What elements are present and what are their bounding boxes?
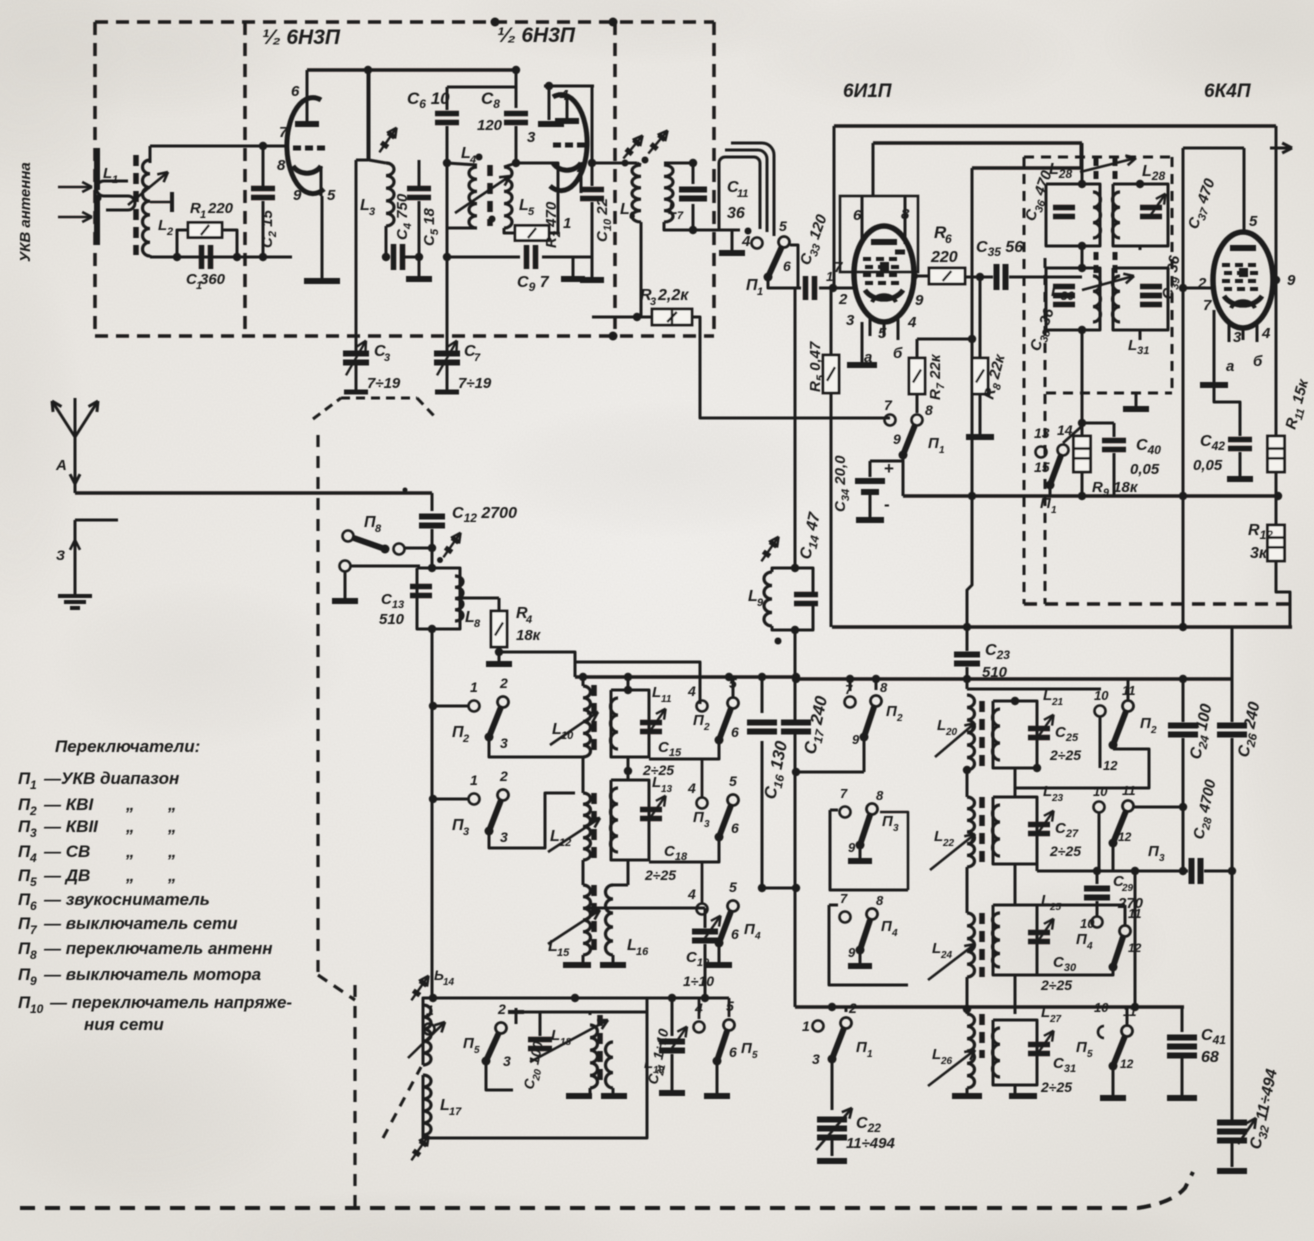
svg-text:З: З [56, 547, 65, 563]
svg-text:2: 2 [703, 722, 710, 733]
svg-text:„: „ [167, 795, 177, 814]
svg-text:20: 20 [945, 727, 958, 738]
svg-text:L: L [1043, 783, 1052, 800]
svg-text:— выключатель сети: — выключатель сети [43, 914, 238, 933]
svg-text:L: L [103, 165, 112, 182]
svg-text:18к: 18к [516, 627, 542, 644]
svg-text:5: 5 [779, 218, 787, 234]
svg-text:— КВІІ: — КВІІ [43, 817, 99, 836]
svg-text:2÷25: 2÷25 [1049, 747, 1081, 763]
svg-text:3: 3 [369, 206, 375, 218]
svg-text:5: 5 [30, 875, 37, 889]
svg-text:13: 13 [661, 784, 673, 795]
svg-text:5: 5 [729, 773, 737, 789]
svg-text:5: 5 [1087, 1049, 1093, 1060]
svg-text:6: 6 [731, 724, 739, 740]
svg-text:2: 2 [1150, 725, 1157, 736]
svg-text:5: 5 [729, 879, 737, 895]
svg-text:14: 14 [443, 977, 455, 988]
svg-text:6К4П: 6К4П [1204, 81, 1251, 102]
svg-text:5: 5 [729, 675, 737, 691]
svg-text:4: 4 [891, 928, 898, 939]
svg-text:L: L [652, 774, 661, 791]
svg-text:6И1П: 6И1П [843, 81, 892, 102]
svg-text:2,2к: 2,2к [657, 287, 689, 304]
svg-text:7: 7 [840, 786, 848, 801]
svg-text:4: 4 [1261, 325, 1271, 342]
svg-text:¹⁄₂ 6Н3П: ¹⁄₂ 6Н3П [497, 24, 576, 47]
svg-text:2: 2 [896, 713, 903, 724]
svg-text:2÷25: 2÷25 [1049, 843, 1081, 859]
svg-text:1: 1 [200, 209, 206, 221]
svg-text:29: 29 [1121, 883, 1134, 894]
svg-text:220: 220 [930, 249, 958, 266]
svg-text:5: 5 [726, 998, 734, 1014]
svg-text:2: 2 [29, 804, 37, 818]
svg-text:9: 9 [893, 431, 901, 447]
svg-text:3: 3 [1233, 329, 1242, 346]
svg-text:4: 4 [687, 886, 696, 902]
svg-text:4: 4 [525, 614, 532, 626]
svg-text:¹⁄₂ 6Н3П: ¹⁄₂ 6Н3П [262, 26, 341, 49]
svg-text:2: 2 [462, 733, 469, 745]
svg-text:L: L [652, 684, 661, 701]
svg-text:C6 10: C6 10 [407, 89, 450, 111]
svg-text:— переключатель антенн: — переключатель антенн [43, 939, 273, 958]
svg-text:1: 1 [112, 174, 118, 186]
svg-text:1: 1 [1051, 505, 1057, 516]
svg-text:4: 4 [1086, 941, 1093, 952]
svg-text:15: 15 [1034, 459, 1050, 475]
svg-text:11: 11 [661, 694, 672, 705]
svg-text:3: 3 [650, 296, 656, 308]
svg-text:L: L [934, 828, 943, 845]
svg-text:6: 6 [731, 926, 739, 942]
svg-text:16: 16 [636, 946, 649, 958]
svg-text:8: 8 [925, 402, 933, 418]
svg-text:9: 9 [915, 292, 924, 309]
svg-text:6: 6 [30, 899, 37, 913]
svg-text:22: 22 [942, 838, 955, 849]
svg-text:„: „ [167, 842, 177, 861]
svg-text:0,05: 0,05 [1193, 457, 1223, 474]
svg-text:2: 2 [838, 291, 848, 308]
svg-text:1: 1 [802, 1018, 810, 1034]
svg-text:5: 5 [327, 187, 336, 204]
svg-text:2÷25: 2÷25 [644, 867, 676, 883]
svg-text:12: 12 [1118, 830, 1132, 844]
svg-text:23: 23 [1051, 793, 1064, 804]
svg-text:5: 5 [1249, 213, 1258, 230]
svg-text:17: 17 [449, 1106, 462, 1118]
svg-text:6: 6 [945, 232, 952, 246]
svg-text:27: 27 [1049, 1014, 1062, 1025]
svg-text:9: 9 [293, 187, 302, 204]
svg-text:12: 12 [1120, 1057, 1134, 1071]
svg-text:0,05: 0,05 [1130, 461, 1160, 478]
svg-text:10: 10 [1094, 688, 1109, 703]
svg-text:4: 4 [687, 683, 696, 699]
svg-text:-: - [884, 495, 890, 514]
svg-text:15: 15 [557, 947, 570, 959]
svg-text:4: 4 [469, 154, 476, 166]
svg-text:„: „ [167, 817, 177, 836]
svg-text:1: 1 [470, 772, 478, 788]
svg-text:6: 6 [729, 1044, 737, 1060]
svg-text:ния сети: ния сети [84, 1015, 164, 1034]
svg-text:„: „ [125, 842, 135, 861]
svg-text:L: L [158, 217, 167, 234]
svg-text:4: 4 [694, 1000, 703, 1016]
svg-text:8: 8 [30, 948, 37, 962]
svg-text:2: 2 [576, 159, 586, 176]
svg-text:1: 1 [826, 269, 833, 284]
svg-text:9: 9 [30, 974, 37, 988]
svg-text:4: 4 [559, 87, 569, 104]
svg-text:L: L [932, 940, 941, 957]
svg-text:7: 7 [840, 891, 848, 906]
svg-text:120: 120 [477, 117, 503, 134]
svg-text:5: 5 [752, 1050, 758, 1061]
svg-text:3к: 3к [1250, 545, 1268, 562]
svg-text:360: 360 [200, 271, 226, 288]
svg-text:36: 36 [727, 205, 745, 222]
svg-text:6: 6 [783, 258, 791, 274]
svg-text:1: 1 [867, 1049, 873, 1060]
svg-text:+: + [884, 459, 894, 478]
svg-text:7: 7 [474, 352, 481, 364]
svg-text:7: 7 [1203, 297, 1212, 314]
svg-text:6: 6 [629, 210, 636, 222]
svg-text:11: 11 [1122, 783, 1136, 798]
svg-text:9: 9 [848, 945, 856, 960]
svg-text:3: 3 [1159, 853, 1165, 864]
svg-text:—УКВ диапазон: —УКВ диапазон [43, 769, 179, 788]
svg-text:— переключатель напряже-: — переключатель напряже- [49, 993, 292, 1012]
svg-text:— КВІ: — КВІ [43, 795, 94, 814]
svg-text:24: 24 [940, 950, 953, 961]
svg-text:а: а [1226, 358, 1234, 375]
svg-text:„: „ [125, 817, 135, 836]
svg-text:9: 9 [848, 840, 856, 855]
svg-text:б: б [1253, 353, 1263, 370]
svg-text:7: 7 [845, 682, 853, 697]
svg-text:8: 8 [277, 157, 286, 174]
svg-text:1: 1 [470, 679, 478, 695]
svg-text:4: 4 [29, 851, 37, 865]
svg-text:— СВ: — СВ [43, 842, 90, 861]
svg-text:4: 4 [741, 233, 751, 250]
svg-text:3: 3 [30, 826, 37, 840]
svg-text:6: 6 [291, 83, 300, 100]
svg-text:1: 1 [426, 1002, 434, 1018]
svg-text:510: 510 [379, 611, 405, 628]
svg-text:13: 13 [1034, 425, 1050, 441]
svg-text:2÷25: 2÷25 [1040, 977, 1072, 993]
svg-text:5: 5 [528, 206, 535, 218]
svg-text:3: 3 [500, 735, 508, 751]
svg-text:2÷25: 2÷25 [1040, 1079, 1072, 1095]
svg-text:L: L [937, 717, 946, 734]
svg-text:510: 510 [982, 664, 1008, 681]
svg-text:3: 3 [527, 129, 536, 146]
svg-text:7: 7 [279, 124, 288, 141]
svg-text:3: 3 [500, 829, 508, 845]
svg-text:4: 4 [907, 314, 917, 331]
svg-text:1: 1 [757, 286, 763, 298]
svg-text:3: 3 [384, 352, 390, 364]
svg-text:2: 2 [497, 1001, 506, 1017]
svg-text:12: 12 [1103, 758, 1118, 773]
svg-text:— ДВ: — ДВ [43, 866, 90, 885]
svg-text:11: 11 [737, 188, 748, 200]
svg-text:L: L [551, 1027, 560, 1044]
svg-text:7: 7 [884, 397, 893, 413]
svg-text:A: A [55, 457, 67, 474]
svg-text:21: 21 [1051, 697, 1064, 708]
svg-text:б: б [893, 345, 903, 362]
svg-text:26: 26 [940, 1056, 953, 1067]
svg-text:9: 9 [1287, 272, 1296, 289]
svg-text:3: 3 [463, 826, 469, 838]
svg-text:2: 2 [499, 768, 508, 784]
svg-text:10: 10 [30, 1002, 44, 1016]
svg-text:2: 2 [166, 226, 173, 238]
svg-text:8: 8 [474, 618, 481, 630]
svg-text:„: „ [125, 795, 135, 814]
svg-text:1: 1 [563, 215, 571, 232]
svg-text:8: 8 [876, 788, 884, 803]
svg-text:УКВ антенна: УКВ антенна [17, 162, 34, 262]
svg-text:10: 10 [1080, 916, 1095, 931]
svg-text:7÷19: 7÷19 [367, 375, 401, 392]
svg-text:220: 220 [207, 200, 234, 217]
svg-text:„: „ [125, 866, 135, 885]
svg-text:8: 8 [375, 523, 382, 535]
svg-text:8: 8 [880, 680, 888, 695]
svg-text:8: 8 [876, 893, 884, 908]
svg-text:5: 5 [474, 1045, 480, 1056]
svg-text:1: 1 [30, 778, 37, 792]
svg-text:3: 3 [893, 823, 899, 834]
svg-text:3: 3 [846, 312, 855, 329]
svg-text:6: 6 [731, 820, 739, 836]
svg-text:4: 4 [754, 931, 761, 942]
svg-text:11÷494: 11÷494 [846, 1135, 895, 1152]
svg-text:— звукосниматель: — звукосниматель [43, 890, 210, 909]
svg-text:9: 9 [757, 597, 764, 609]
svg-text:7: 7 [677, 210, 684, 222]
svg-text:3: 3 [812, 1051, 820, 1067]
svg-text:7÷19: 7÷19 [458, 375, 492, 392]
svg-text:4: 4 [687, 780, 696, 796]
svg-text:2: 2 [499, 675, 508, 691]
svg-text:„: „ [167, 866, 177, 885]
svg-text:L: L [1043, 687, 1052, 704]
svg-text:68: 68 [1201, 1049, 1219, 1066]
svg-text:3: 3 [704, 819, 710, 830]
svg-text:1÷10: 1÷10 [683, 973, 714, 989]
svg-text:10: 10 [1093, 784, 1108, 799]
svg-text:— выключатель мотора: — выключатель мотора [43, 965, 261, 984]
svg-text:3: 3 [503, 1053, 511, 1069]
svg-text:9: 9 [852, 732, 860, 747]
svg-text:Переключатели:: Переключатели: [55, 737, 200, 756]
svg-text:L: L [932, 1046, 941, 1063]
svg-text:1: 1 [939, 445, 945, 456]
